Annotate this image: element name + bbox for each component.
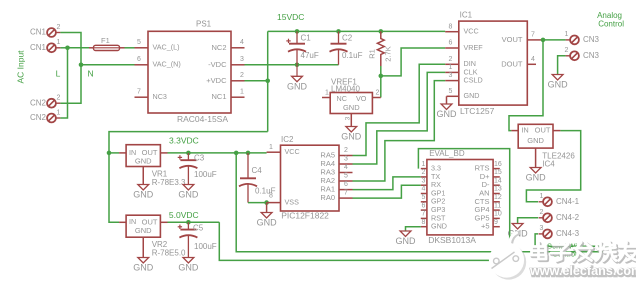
svg-text:GND: GND: [133, 190, 154, 200]
svg-text:5: 5: [137, 39, 141, 46]
svg-text:1: 1: [325, 89, 329, 96]
svg-text:6: 6: [449, 40, 453, 47]
connector CN2 pin 1: [30, 109, 61, 122]
junction 3.3 feed: [234, 151, 239, 156]
svg-text:3: 3: [540, 225, 544, 232]
ground below EVAL pin8: [396, 231, 417, 246]
svg-text:CN3: CN3: [583, 51, 600, 60]
connector CN2 pin 2: [30, 95, 61, 108]
svg-text:2: 2: [422, 169, 426, 176]
svg-text:1: 1: [422, 161, 426, 168]
svg-text:NC1: NC1: [211, 92, 226, 101]
svg-text:4: 4: [422, 186, 426, 193]
svg-text:5: 5: [422, 194, 426, 201]
svg-text:NC2: NC2: [211, 43, 226, 52]
wire to VR1 IN: [109, 152, 119, 154]
svg-text:10: 10: [494, 211, 502, 218]
svg-text:2: 2: [376, 89, 380, 96]
label 3.3VDC: [169, 136, 199, 146]
svg-text:3: 3: [422, 177, 426, 184]
wire 5.0VDC rail: [168, 221, 220, 223]
svg-text:IC1: IC1: [460, 11, 473, 20]
wire CN3-2 to gnd: [558, 56, 566, 75]
wire C4 to VSS: [248, 202, 267, 204]
svg-text:GND: GND: [396, 236, 417, 246]
svg-text:RA0: RA0: [320, 193, 335, 202]
svg-text:2: 2: [565, 47, 569, 54]
svg-text:CSLD: CSLD: [464, 76, 483, 85]
wire R1 to VO: [380, 66, 382, 76]
wire L to fuse: [68, 47, 90, 49]
svg-text:GND: GND: [135, 156, 152, 165]
svg-text:GND: GND: [464, 91, 480, 100]
ground below VR2: [133, 258, 154, 273]
wire VREF net: [381, 48, 445, 76]
svg-text:7: 7: [531, 32, 535, 39]
wire TLE OUT to CN4-1: [526, 131, 580, 202]
svg-text:C2: C2: [342, 33, 353, 42]
svg-text:GND: GND: [526, 173, 547, 183]
junction C3 top: [186, 151, 191, 156]
svg-text:12: 12: [494, 194, 502, 201]
wire RA0 to RX: [353, 185, 421, 198]
svg-text:3.3VDC: 3.3VDC: [169, 136, 199, 146]
label AC Input: [15, 50, 25, 84]
capacitor C2: [330, 31, 363, 64]
svg-text:LTC1257: LTC1257: [460, 106, 495, 116]
label N: [88, 68, 94, 78]
svg-text:1: 1: [240, 89, 244, 96]
svg-text:CN1: CN1: [30, 28, 47, 37]
svg-text:IC2: IC2: [281, 135, 294, 144]
junction L: [65, 46, 70, 51]
svg-text:CN1: CN1: [30, 43, 47, 52]
svg-text:GND: GND: [135, 226, 152, 235]
svg-text:15VDC: 15VDC: [277, 12, 304, 22]
wire RA1 to TX: [353, 177, 421, 190]
svg-text:GND: GND: [287, 81, 308, 91]
svg-text:4: 4: [344, 164, 348, 171]
svg-text:N: N: [88, 68, 94, 78]
svg-text:2.7K: 2.7K: [383, 46, 392, 61]
svg-text:2: 2: [57, 95, 61, 102]
ground below IC1 pin5: [437, 96, 458, 119]
wire VOUT to CN3-1: [541, 39, 566, 41]
ground below VR1: [133, 185, 154, 200]
junction C1 gnd: [295, 63, 300, 68]
junction C4 top: [246, 151, 251, 156]
svg-text:EVAL_BD: EVAL_BD: [429, 149, 465, 158]
svg-text:CN4-3: CN4-3: [556, 229, 580, 238]
svg-text:C3: C3: [194, 154, 205, 163]
svg-text:3: 3: [344, 156, 348, 163]
svg-text:OUT: OUT: [142, 217, 158, 226]
svg-text:16: 16: [494, 161, 502, 168]
wire 15VDC rail: [268, 30, 446, 32]
svg-text:5.0VDC: 5.0VDC: [169, 210, 199, 220]
svg-text:5: 5: [344, 173, 348, 180]
label Serial Wire Control: [547, 241, 584, 258]
svg-text:2: 2: [540, 209, 544, 216]
ground below C3: [178, 185, 199, 200]
connector CN1 pin 1: [30, 39, 61, 52]
junction R1/VREF/VO: [379, 74, 384, 79]
svg-text:7: 7: [137, 89, 141, 96]
junction R1 top: [379, 29, 384, 34]
svg-text:CN3: CN3: [583, 35, 600, 44]
capacitor C4: [239, 153, 276, 203]
svg-text:CN2: CN2: [30, 113, 47, 122]
svg-text:0.1uF: 0.1uF: [342, 51, 363, 60]
junction C2 top: [336, 29, 341, 34]
wire CLK to RA4: [353, 72, 446, 164]
wire +VDC to 15V rail: [245, 80, 268, 82]
voltage reference VREF1 LM4040: [322, 77, 381, 126]
svg-text:3: 3: [449, 72, 453, 79]
ground below VREF1: [341, 127, 362, 142]
svg-text:IN: IN: [522, 126, 529, 135]
svg-text:DKSB1013A: DKSB1013A: [428, 235, 476, 245]
svg-text:VCC: VCC: [285, 147, 300, 156]
svg-text:RAC04-15SA: RAC04-15SA: [177, 114, 228, 124]
svg-text:GND: GND: [178, 263, 199, 273]
svg-text:CN4-1: CN4-1: [556, 197, 580, 206]
svg-text:CN2: CN2: [30, 98, 47, 107]
power module PS1 RAC04-15SA: [135, 20, 245, 124]
junction VSS gnd: [264, 200, 269, 205]
svg-text:14: 14: [494, 177, 502, 184]
svg-text:-VDC: -VDC: [208, 60, 227, 69]
svg-text:VOUT: VOUT: [502, 35, 523, 44]
svg-text:GND: GND: [257, 218, 278, 228]
connector CN1 pin 2: [30, 24, 61, 37]
junction +VDC: [265, 79, 270, 84]
svg-text:2: 2: [57, 24, 61, 31]
svg-text:1: 1: [565, 31, 569, 38]
svg-text:5: 5: [449, 88, 453, 95]
microcontroller IC2 PIC12F1822: [267, 135, 353, 221]
svg-text:47uF: 47uF: [301, 51, 319, 60]
svg-text:R-78E3.3: R-78E3.3: [152, 178, 186, 187]
ground below CN4-2: [508, 224, 529, 239]
svg-text:8: 8: [269, 192, 273, 199]
svg-text:Control: Control: [598, 19, 624, 28]
svg-text:CN4-2: CN4-2: [556, 213, 580, 222]
svg-text:1: 1: [449, 64, 453, 71]
wire CN4-3 net: [535, 234, 612, 252]
svg-text:GND: GND: [341, 132, 362, 142]
svg-text:VAC_(N): VAC_(N): [153, 60, 181, 69]
ground below TLE2426: [526, 168, 547, 183]
eval board EVAL_BD DKSB1013A: [421, 149, 502, 245]
svg-text:PIC12F1822: PIC12F1822: [281, 210, 329, 220]
svg-text:IN: IN: [129, 217, 136, 226]
svg-text:VREF: VREF: [464, 43, 484, 52]
svg-text:C5: C5: [193, 224, 204, 233]
svg-text:2: 2: [344, 147, 348, 154]
wire VOUT to TLE2426 IN: [509, 40, 543, 131]
ground below C1: [287, 65, 308, 92]
capacitor C5: [178, 222, 217, 257]
label 5.0VDC: [169, 210, 199, 220]
connector CN3 pin 2: [565, 47, 600, 60]
wire CSLD to RA2: [353, 81, 446, 181]
capacitor C3: [178, 153, 217, 185]
junction C1 top: [295, 29, 300, 34]
svg-text:VCC: VCC: [464, 27, 479, 36]
svg-text:15: 15: [494, 169, 502, 176]
DAC IC1 LTC1257: [445, 11, 541, 116]
label 15VDC: [277, 12, 304, 22]
junction N: [79, 63, 84, 68]
svg-text:7: 7: [344, 190, 348, 197]
svg-text:4: 4: [531, 56, 535, 63]
svg-text:3: 3: [345, 116, 352, 120]
rail splitter IC4 TLE2426: [511, 124, 575, 168]
svg-text:4: 4: [240, 39, 244, 46]
wire 5V long route: [219, 149, 509, 261]
svg-text:F1: F1: [101, 36, 110, 45]
wire DIN to RA5: [353, 64, 446, 155]
connector CN4-3: [539, 225, 580, 238]
wire EVAL gnd: [406, 227, 421, 231]
wire CN1-1 to junction: [60, 47, 67, 49]
wire 15V vertical feed: [267, 31, 269, 131]
ground below CN3-2: [548, 75, 569, 90]
svg-text:GND: GND: [178, 190, 199, 200]
svg-text:AC Input: AC Input: [15, 50, 25, 84]
connector CN4-2: [539, 209, 580, 222]
svg-text:GND: GND: [527, 136, 544, 145]
wire CN4-2 to gnd: [518, 218, 539, 224]
resistor R1 2.7K: [367, 31, 392, 66]
svg-text:6: 6: [137, 56, 141, 63]
svg-text:VAC_(L): VAC_(L): [153, 43, 180, 52]
wire 3.3VDC rail: [168, 152, 267, 154]
svg-text:1: 1: [57, 39, 61, 46]
svg-text:GND: GND: [343, 103, 360, 112]
svg-text:VSS: VSS: [285, 198, 300, 207]
svg-text:11: 11: [494, 202, 501, 209]
svg-text:GND: GND: [548, 80, 569, 90]
wire CN1-2 to CN2-2: [60, 33, 81, 104]
svg-text:www.elecfans.com: www.elecfans.com: [529, 264, 636, 278]
svg-text:1: 1: [269, 144, 273, 151]
connector CN3 pin 1: [565, 31, 600, 44]
watermark elecfans logo and text: [489, 233, 636, 280]
svg-text:DOUT: DOUT: [501, 59, 523, 68]
svg-text:6: 6: [422, 202, 426, 209]
svg-text:3: 3: [240, 56, 244, 63]
svg-text:1: 1: [540, 193, 544, 200]
svg-text:GND: GND: [437, 109, 458, 119]
regulator VR2 R-78E5.0: [119, 215, 186, 257]
ground below C5: [178, 258, 199, 273]
svg-text:C1: C1: [301, 33, 312, 42]
svg-text:GND: GND: [133, 263, 154, 273]
label L: [56, 68, 61, 78]
ground below C4/VSS: [257, 203, 278, 228]
svg-text:GND: GND: [431, 222, 447, 231]
svg-text:R1: R1: [367, 49, 376, 59]
regulator VR1 R-78E3.3: [119, 145, 186, 187]
svg-text:8: 8: [449, 23, 453, 30]
wire fuse to PS1 pin5: [125, 47, 135, 49]
svg-text:9: 9: [494, 219, 498, 226]
wire 15V to regulators: [109, 132, 268, 223]
junction VOUT: [541, 38, 546, 43]
wire N to PS1 pin6: [81, 64, 135, 66]
svg-text:6: 6: [344, 181, 348, 188]
svg-text:2: 2: [449, 56, 453, 63]
junction C5 top: [186, 220, 191, 225]
svg-text:LM4040: LM4040: [331, 84, 360, 93]
svg-text:1: 1: [57, 109, 61, 116]
wire 3.3V long route: [236, 153, 612, 252]
junction VR1 in: [107, 151, 112, 156]
wire -VDC gnd bus: [245, 64, 339, 66]
svg-text:IC4: IC4: [542, 159, 555, 168]
svg-text:7: 7: [422, 211, 426, 218]
wire VO feed: [380, 76, 382, 98]
capacitor C1: [286, 31, 319, 64]
svg-text:PS1: PS1: [196, 20, 212, 29]
svg-text:L: L: [56, 68, 61, 78]
svg-text:100uF: 100uF: [194, 170, 217, 179]
svg-text:+VDC: +VDC: [206, 76, 227, 85]
svg-text:100uF: 100uF: [194, 242, 217, 251]
wire junction to CN2-1: [60, 48, 67, 118]
label Analog Control: [597, 11, 624, 28]
svg-text:R-78E5.0: R-78E5.0: [152, 248, 186, 257]
svg-text:13: 13: [494, 186, 502, 193]
svg-text:+5: +5: [481, 222, 490, 231]
connector CN4-1: [539, 193, 580, 206]
svg-text:NC3: NC3: [153, 92, 167, 101]
svg-text:C4: C4: [252, 166, 263, 175]
svg-text:8: 8: [422, 219, 426, 226]
svg-text:2: 2: [240, 72, 244, 79]
fuse F1: [89, 36, 125, 51]
svg-text:OUT: OUT: [535, 126, 551, 135]
